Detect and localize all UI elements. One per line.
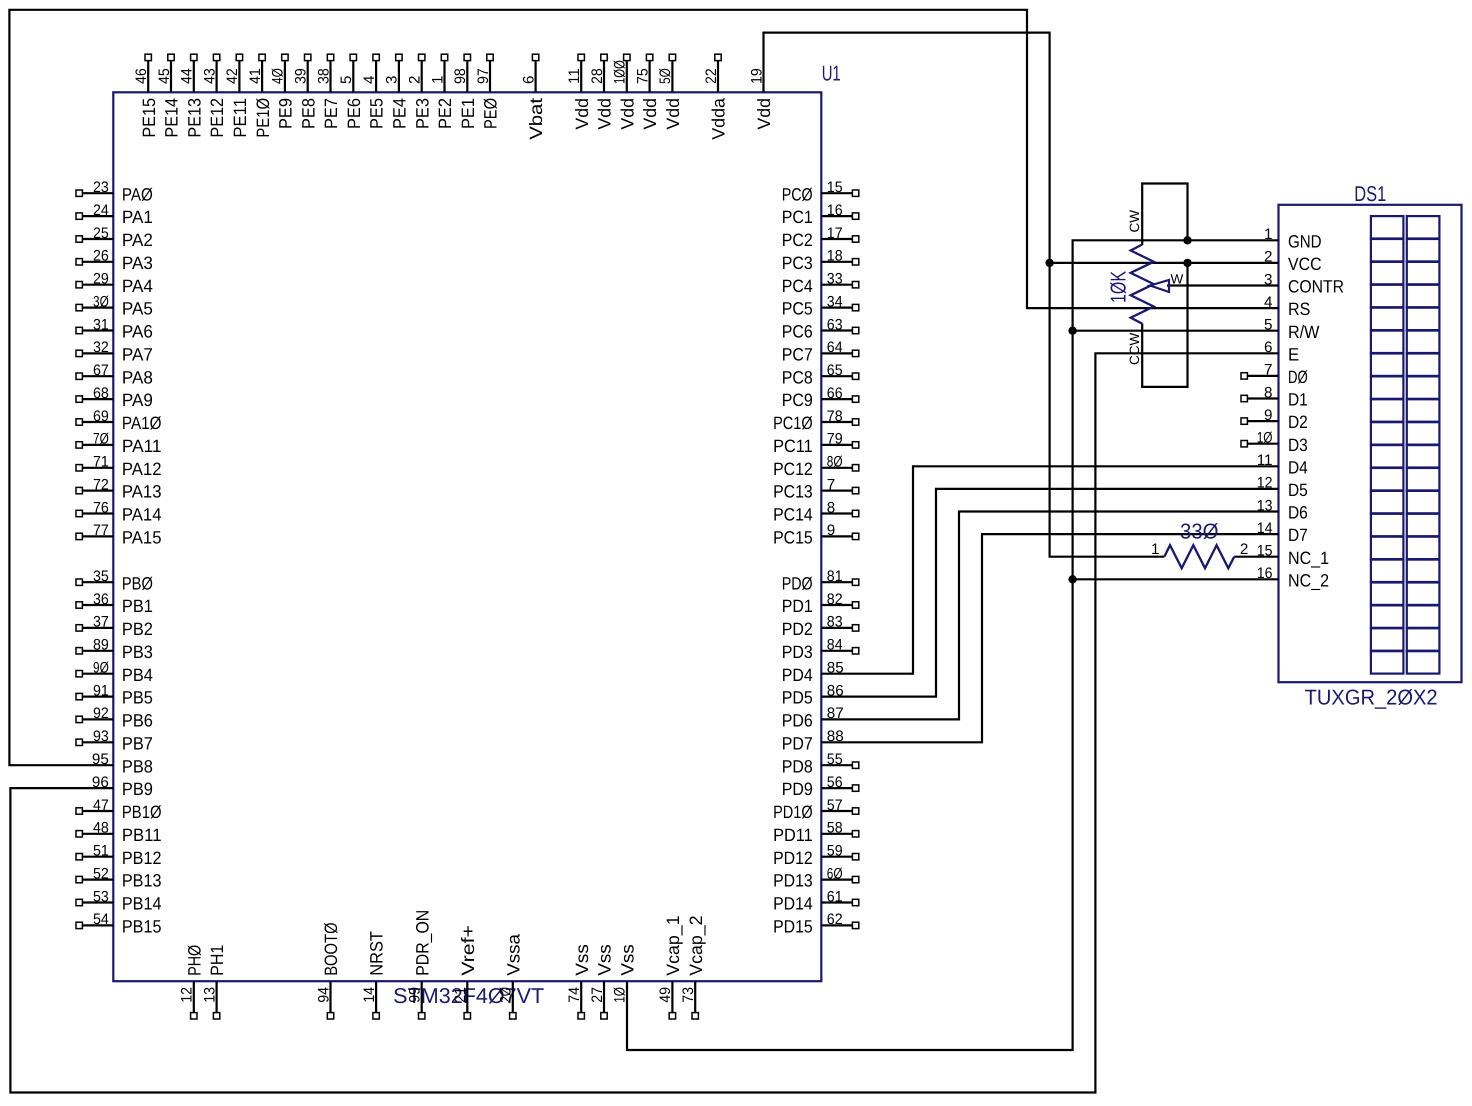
U1 pin 56 PD9 (right) (782, 774, 859, 799)
svg-text:PDR_ON: PDR_ON (412, 910, 432, 976)
svg-text:PC8: PC8 (782, 367, 813, 387)
svg-text:57: 57 (827, 797, 843, 814)
U1 pin 60 PD13 (right) (773, 865, 859, 890)
svg-text:U1: U1 (822, 61, 841, 85)
svg-text:PE4: PE4 (390, 98, 410, 129)
svg-text:NRST: NRST (367, 931, 387, 976)
svg-text:46: 46 (133, 68, 150, 84)
U1 pin 80 PC12 (right) (773, 454, 859, 479)
svg-text:6Ø: 6Ø (827, 865, 843, 882)
U1 pin 31 PA6 (left) (76, 316, 153, 341)
svg-text:2: 2 (407, 76, 424, 84)
wire pot CW terminal to GND rail (1142, 184, 1187, 246)
svg-text:5Ø: 5Ø (657, 68, 674, 84)
svg-text:47: 47 (93, 797, 109, 814)
DS1 pin 16 NC_2 (1257, 565, 1329, 590)
wire ground branch to LCD NC_2 (1073, 578, 1279, 580)
svg-text:PC2: PC2 (782, 230, 813, 250)
U1 pin 3 PE4 (top) (384, 54, 410, 129)
svg-text:91: 91 (93, 682, 109, 699)
svg-text:PC11: PC11 (773, 436, 813, 456)
svg-text:PE5: PE5 (367, 98, 387, 129)
DS1 pin 13 D6 (1257, 497, 1308, 522)
svg-text:PE15: PE15 (139, 98, 159, 138)
svg-text:55: 55 (827, 751, 843, 768)
svg-text:44: 44 (179, 68, 196, 84)
svg-text:PC7: PC7 (782, 345, 813, 365)
U1 pin 16 PC1 (right) (782, 202, 859, 227)
U1 pin 42 PE11 (top) (224, 54, 250, 137)
svg-text:PAØ: PAØ (122, 184, 153, 204)
U1 pin 50 Vdd (top) (657, 54, 683, 129)
U1 pin 9 PC15 (right) (773, 522, 859, 547)
svg-text:89: 89 (93, 637, 109, 654)
U1 pin 65 PC8 (right) (782, 362, 859, 387)
svg-text:69: 69 (93, 408, 109, 425)
U1 pin 45 PE14 (top) (156, 54, 182, 137)
svg-text:52: 52 (93, 865, 109, 882)
svg-text:98: 98 (452, 68, 469, 84)
U1 pin 33 PC4 (right) (782, 271, 859, 296)
U1 pin 58 PD11 (right) (773, 820, 859, 845)
svg-text:PB2: PB2 (122, 619, 153, 639)
svg-text:PD7: PD7 (782, 733, 813, 753)
svg-text:1: 1 (1151, 541, 1159, 558)
svg-text:PA12: PA12 (122, 459, 162, 479)
U1 pin 84 PD3 (right) (782, 637, 859, 662)
svg-text:PA4: PA4 (122, 276, 153, 296)
svg-text:D4: D4 (1288, 457, 1308, 477)
svg-text:GND: GND (1288, 231, 1322, 251)
U1 pin 70 PA11 (left) (76, 431, 162, 456)
U1 pin 49 Vcap_1 (bottom) (657, 915, 683, 1019)
U1 pin 40 PE9 (top) (270, 54, 296, 129)
svg-text:93: 93 (93, 728, 109, 745)
svg-text:Vref+: Vref+ (458, 925, 478, 976)
svg-text:PE14: PE14 (162, 98, 182, 138)
U1 pin 96 PB9 (left, connected) (92, 774, 153, 799)
svg-text:56: 56 (827, 774, 843, 791)
svg-text:PC1Ø: PC1Ø (773, 413, 813, 433)
U1 pin 22 Vdda (top) (703, 54, 729, 140)
svg-text:PA13: PA13 (122, 482, 162, 502)
U1 pin 24 PA1 (left) (76, 202, 153, 227)
svg-text:37: 37 (93, 614, 109, 631)
svg-text:65: 65 (827, 362, 843, 379)
svg-text:8Ø: 8Ø (827, 454, 843, 471)
U1 pin 74 Vss (bottom) (566, 944, 592, 1019)
svg-text:9: 9 (1264, 407, 1272, 424)
DS1 pin 15 NC_1 (1257, 543, 1329, 568)
U1 pin 38 PE7 (top) (315, 54, 341, 129)
svg-text:PD14: PD14 (773, 894, 813, 914)
svg-text:DØ: DØ (1288, 367, 1308, 387)
svg-text:26: 26 (93, 248, 109, 265)
U1 pin 26 PA3 (left) (76, 248, 153, 273)
svg-text:PC1: PC1 (782, 207, 813, 227)
U1 pin 64 PC7 (right) (782, 339, 859, 364)
svg-text:PD1: PD1 (782, 596, 813, 616)
svg-text:53: 53 (93, 888, 109, 905)
svg-text:45: 45 (156, 68, 173, 84)
svg-text:9: 9 (827, 522, 835, 539)
svg-text:CW: CW (1127, 210, 1142, 233)
DS1 pin 3 CONTR (1264, 271, 1344, 296)
U1 pin 41 PE10 (top) (247, 54, 273, 137)
junction Vdd/VCC (1045, 259, 1053, 267)
svg-text:27: 27 (589, 987, 606, 1003)
svg-text:PBØ: PBØ (122, 573, 153, 593)
svg-text:PD5: PD5 (782, 688, 813, 708)
U1 pin 98 PE1 (top) (452, 54, 478, 129)
U1 pin 90 PB4 (left) (76, 660, 153, 685)
U1 pin 19 Vdd (top) (748, 68, 774, 129)
U1 pin 67 PA8 (left) (76, 362, 153, 387)
U1 pin 13 PH1 (bottom) (201, 945, 227, 1019)
U1 pin 29 PA4 (left) (76, 271, 153, 296)
U1 pin 66 PC9 (right) (782, 385, 859, 410)
U1 pin 92 PB6 (left) (76, 705, 153, 730)
U1 pin 12 PH0 (bottom) (179, 945, 205, 1019)
svg-text:PHØ: PHØ (184, 945, 204, 976)
svg-text:PE3: PE3 (412, 98, 432, 129)
svg-text:54: 54 (93, 911, 109, 928)
U1 pin 91 PB5 (left) (76, 682, 153, 707)
svg-text:92: 92 (93, 705, 109, 722)
U1 pin 99 PDR_ON (bottom) (407, 910, 433, 1019)
svg-text:13: 13 (201, 987, 218, 1003)
svg-text:73: 73 (680, 987, 697, 1003)
wire ground branch to LCD R/W (1073, 330, 1279, 332)
svg-text:49: 49 (657, 987, 674, 1003)
svg-text:22: 22 (703, 68, 720, 84)
svg-text:7: 7 (1264, 362, 1272, 379)
svg-text:PD6: PD6 (782, 711, 813, 731)
svg-text:76: 76 (93, 499, 109, 516)
svg-text:68: 68 (93, 385, 109, 402)
U1 pin 52 PB13 (left) (76, 865, 162, 890)
svg-text:PC6: PC6 (782, 322, 813, 342)
svg-text:PC5: PC5 (782, 299, 813, 319)
svg-text:PE1Ø: PE1Ø (253, 98, 273, 138)
svg-text:8: 8 (827, 499, 835, 516)
wire VCC rail branch to LCD VCC (1050, 262, 1279, 264)
svg-text:8: 8 (1264, 384, 1272, 401)
svg-text:PA8: PA8 (122, 367, 153, 387)
U1 pin 95 PB8 (left, connected) (92, 751, 153, 776)
svg-text:PA14: PA14 (122, 505, 162, 525)
U1 pin 6 Vbat (top) (520, 54, 546, 140)
svg-text:Vdd: Vdd (754, 98, 774, 130)
svg-text:PB3: PB3 (122, 642, 153, 662)
svg-text:R/W: R/W (1288, 322, 1319, 342)
svg-text:78: 78 (827, 408, 843, 425)
svg-text:28: 28 (589, 68, 606, 84)
svg-text:CONTR: CONTR (1288, 277, 1344, 297)
svg-text:41: 41 (247, 68, 264, 84)
svg-text:PCØ: PCØ (782, 184, 813, 204)
DS1 pin 1 GND (1264, 226, 1322, 251)
svg-text:77: 77 (93, 522, 109, 539)
DS1 pin 8 D1 (1241, 384, 1308, 409)
U1 pin 86 PD5 (right, connected) (782, 682, 844, 707)
svg-text:58: 58 (827, 820, 843, 837)
svg-text:51: 51 (93, 843, 109, 860)
svg-text:PB1Ø: PB1Ø (122, 802, 162, 822)
svg-text:Vcap_1: Vcap_1 (663, 915, 683, 975)
svg-text:BOOTØ: BOOTØ (321, 922, 341, 975)
U1 pin 37 PB2 (left) (76, 614, 153, 639)
wire PD7 to LCD D7 (821, 534, 1278, 742)
svg-text:PD4: PD4 (782, 665, 813, 685)
junction pot-CW/GND (1183, 236, 1191, 244)
svg-text:23: 23 (93, 179, 109, 196)
LCD module DS1 body (1279, 205, 1462, 682)
U1 pin 89 PB3 (left) (76, 637, 153, 662)
svg-text:7Ø: 7Ø (93, 431, 109, 448)
svg-text:39: 39 (293, 68, 310, 84)
U1 pin 34 PC5 (right) (782, 293, 859, 318)
U1 pin 25 PA2 (left) (76, 225, 153, 250)
svg-text:84: 84 (827, 637, 843, 654)
svg-text:PA6: PA6 (122, 322, 153, 342)
U1 pin 73 Vcap_2 (bottom) (680, 915, 706, 1019)
svg-text:79: 79 (827, 431, 843, 448)
DS1 pin 5 R/W (1264, 317, 1319, 342)
svg-text:PE7: PE7 (321, 98, 341, 129)
U1 pin 5 PE6 (top) (338, 54, 364, 129)
U1 pin 51 PB12 (left) (76, 843, 162, 868)
U1 pin 28 Vdd (top) (589, 54, 615, 129)
U1 pin 71 PA12 (left) (76, 454, 162, 479)
svg-text:42: 42 (224, 68, 241, 84)
U1 pin 72 PA13 (left) (76, 476, 162, 501)
U1 pin 69 PA10 (left) (76, 408, 162, 433)
DS1 pin 6 E (1264, 339, 1299, 364)
U1 pin 2 PE3 (top) (407, 54, 433, 129)
svg-text:75: 75 (634, 68, 651, 84)
junction ground/R-W (1068, 327, 1076, 335)
svg-text:PE9: PE9 (276, 98, 296, 129)
svg-text:82: 82 (827, 591, 843, 608)
U1 pin 27 Vss (bottom) (589, 944, 615, 1019)
wire pot wiper to LCD CONTR (1167, 284, 1279, 286)
svg-text:PD9: PD9 (782, 779, 813, 799)
svg-text:2Ø: 2Ø (498, 987, 515, 1003)
U1 pin 23 PA0 (left) (76, 179, 153, 204)
svg-text:PE12: PE12 (207, 98, 227, 138)
svg-text:PH1: PH1 (207, 945, 227, 976)
U1 pin 7 PC13 (right) (773, 476, 859, 501)
U1 pin 59 PD12 (right) (773, 843, 859, 868)
svg-text:PC14: PC14 (773, 505, 813, 525)
U1 pin 76 PA14 (left) (76, 499, 162, 524)
U1 pin 44 PE13 (top) (179, 54, 205, 137)
U1 pin 18 PC3 (right) (782, 248, 859, 273)
svg-text:PD8: PD8 (782, 756, 813, 776)
svg-text:1ØK: 1ØK (1107, 271, 1131, 303)
wire PB9 to LCD E (bottom frame) (10, 353, 1278, 1092)
svg-text:DS1: DS1 (1354, 182, 1386, 206)
svg-text:32: 32 (93, 339, 109, 356)
U1 pin 17 PC2 (right) (782, 225, 859, 250)
svg-text:Vbat: Vbat (526, 98, 546, 140)
U1 pin 48 PB11 (left) (76, 820, 162, 845)
svg-text:43: 43 (201, 68, 218, 84)
svg-text:83: 83 (827, 614, 843, 631)
svg-text:1: 1 (429, 76, 446, 84)
DS1 pin 7 D0 (1241, 362, 1308, 387)
U1 pin 88 PD7 (right, connected) (782, 728, 844, 753)
svg-text:1ØØ: 1ØØ (612, 60, 629, 84)
svg-text:38: 38 (315, 68, 332, 84)
svg-text:2: 2 (1240, 541, 1248, 558)
U1 pin 4 PE5 (top) (361, 54, 387, 129)
wire pot CCW terminal to VCC rail (1142, 263, 1187, 387)
svg-text:PD3: PD3 (782, 642, 813, 662)
svg-text:PE1: PE1 (458, 98, 478, 129)
U1 pin 32 PA7 (left) (76, 339, 153, 364)
DS1 pin 10 D3 (1241, 430, 1308, 455)
DS1 pin 4 RS (1264, 294, 1310, 319)
svg-text:33: 33 (827, 271, 843, 288)
svg-text:3: 3 (384, 76, 401, 84)
U1 pin 35 PB0 (left) (76, 568, 153, 593)
svg-text:59: 59 (827, 843, 843, 860)
DS1 pin 2 VCC (1264, 249, 1322, 274)
U1 pin 14 NRST (bottom) (361, 931, 387, 1019)
U1 pin 94 BOOT0 (bottom) (315, 922, 341, 1019)
svg-text:99: 99 (407, 987, 424, 1003)
svg-text:PB1: PB1 (122, 596, 153, 616)
svg-text:PB6: PB6 (122, 711, 153, 731)
U1 pin 62 PD15 (right) (773, 911, 859, 936)
svg-text:PC9: PC9 (782, 390, 813, 410)
U1 pin 1 PE2 (top) (429, 54, 455, 129)
svg-text:PB9: PB9 (122, 779, 153, 799)
svg-text:74: 74 (566, 987, 583, 1003)
svg-text:Vdd: Vdd (572, 98, 592, 130)
svg-text:NC_2: NC_2 (1288, 570, 1329, 590)
svg-text:7: 7 (827, 476, 835, 493)
svg-text:PE8: PE8 (298, 98, 318, 129)
svg-text:PA3: PA3 (122, 253, 153, 273)
svg-text:3Ø: 3Ø (93, 293, 109, 310)
svg-text:PA5: PA5 (122, 299, 153, 319)
svg-text:PD15: PD15 (773, 917, 813, 937)
svg-text:4: 4 (361, 76, 378, 84)
U1 pin 47 PB10 (left) (76, 797, 162, 822)
svg-text:D2: D2 (1288, 412, 1308, 432)
svg-text:PE13: PE13 (184, 98, 204, 138)
svg-text:Vdd: Vdd (617, 98, 637, 130)
U1 pin 75 Vdd (top) (634, 54, 660, 129)
svg-text:Vdd: Vdd (640, 98, 660, 130)
svg-text:72: 72 (93, 476, 109, 493)
U1 pin 79 PC11 (right) (773, 431, 859, 456)
svg-text:PA1: PA1 (122, 207, 153, 227)
svg-text:D3: D3 (1288, 435, 1308, 455)
svg-text:PD13: PD13 (773, 871, 813, 891)
svg-text:63: 63 (827, 316, 843, 333)
svg-text:31: 31 (93, 316, 109, 333)
svg-text:67: 67 (93, 362, 109, 379)
svg-text:25: 25 (93, 225, 109, 242)
DS1 pin 12 D5 (1257, 475, 1308, 500)
U1 pin 61 PD14 (right) (773, 888, 859, 913)
resistor 330 body (zigzag) (1164, 545, 1234, 568)
wire 330 resistor output to LCD NC_1 (1234, 556, 1278, 558)
svg-text:64: 64 (827, 339, 843, 356)
svg-text:PDØ: PDØ (782, 573, 813, 593)
svg-text:W: W (1171, 272, 1184, 287)
svg-text:PE6: PE6 (344, 98, 364, 129)
U1 pin 100 Vdd (top) (612, 54, 638, 129)
svg-text:34: 34 (827, 293, 843, 310)
U1 pin 77 PA15 (left) (76, 522, 162, 547)
svg-text:PC13: PC13 (773, 482, 813, 502)
svg-text:48: 48 (93, 820, 109, 837)
U1 pin 15 PC0 (right) (782, 179, 859, 204)
svg-text:PC3: PC3 (782, 253, 813, 273)
svg-text:35: 35 (93, 568, 109, 585)
potentiometer 10K body (zigzag) (1131, 245, 1154, 324)
svg-text:PC15: PC15 (773, 528, 813, 548)
svg-text:4Ø: 4Ø (270, 68, 287, 84)
svg-text:Vss: Vss (572, 944, 592, 976)
U1 pin 63 PC6 (right) (782, 316, 859, 341)
svg-text:PB13: PB13 (122, 871, 162, 891)
U1 pin 53 PB14 (left) (76, 888, 162, 913)
svg-text:PA11: PA11 (122, 436, 162, 456)
svg-text:21: 21 (452, 987, 469, 1003)
U1 pin 97 PE0 (top) (475, 54, 501, 129)
svg-text:62: 62 (827, 911, 843, 928)
svg-text:15: 15 (827, 179, 843, 196)
svg-text:E: E (1288, 344, 1299, 364)
wire PD4 to LCD D4 (821, 466, 1278, 673)
svg-text:CCW: CCW (1127, 333, 1142, 365)
svg-text:D7: D7 (1288, 525, 1308, 545)
U1 pin 11 Vdd (top) (566, 54, 592, 129)
svg-text:Vdd: Vdd (595, 98, 615, 130)
DS1 LCD character cells grid (1371, 216, 1440, 674)
svg-text:PC4: PC4 (782, 276, 813, 296)
svg-text:PD2: PD2 (782, 619, 813, 639)
junction ground/NC_2 (1068, 575, 1076, 583)
svg-text:PE2: PE2 (435, 98, 455, 129)
svg-text:PD1Ø: PD1Ø (773, 802, 813, 822)
svg-text:61: 61 (827, 888, 843, 905)
svg-text:VCC: VCC (1288, 254, 1322, 274)
svg-text:PA2: PA2 (122, 230, 153, 250)
svg-text:Vdd: Vdd (663, 98, 683, 130)
U1 pin 93 PB7 (left) (76, 728, 153, 753)
svg-text:PB5: PB5 (122, 688, 153, 708)
wire PD6 to LCD D6 (821, 512, 1278, 720)
U1 pin 43 PE12 (top) (201, 54, 227, 137)
svg-text:9Ø: 9Ø (93, 660, 109, 677)
U1 pin 46 PE15 (top) (133, 54, 159, 137)
svg-text:TUXGR_2ØX2: TUXGR_2ØX2 (1305, 686, 1438, 710)
svg-text:PD11: PD11 (773, 825, 813, 845)
svg-text:94: 94 (315, 987, 332, 1003)
svg-text:81: 81 (827, 568, 843, 585)
svg-text:Vss: Vss (617, 944, 637, 976)
U1 pin 30 PA5 (left) (76, 293, 153, 318)
U1 pin 78 PC10 (right) (773, 408, 859, 433)
svg-text:PEØ: PEØ (481, 98, 501, 129)
